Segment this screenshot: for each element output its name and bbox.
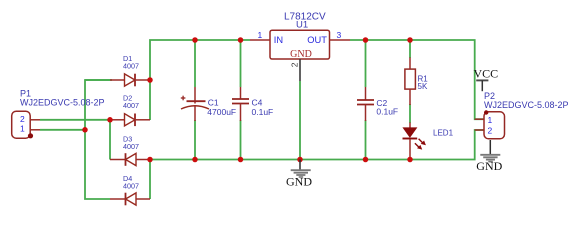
svg-text:OUT: OUT [307, 35, 327, 45]
svg-text:VCC: VCC [474, 67, 499, 81]
regulator U1 [250, 12, 350, 82]
svg-text:2: 2 [290, 62, 300, 67]
wire top rail OUT to P2 pin1 [350, 40, 484, 119]
svg-text:GND: GND [290, 49, 312, 60]
svg-text:0.1uF: 0.1uF [252, 107, 274, 117]
svg-text:4007: 4007 [123, 181, 139, 190]
ground symbol under P2 [476, 140, 502, 173]
node top rail R1 [407, 37, 413, 43]
wire C1 column [194, 40, 196, 87]
resistor R1 [405, 58, 428, 106]
wire vertical x110 D2 anode to D3 cathode [109, 120, 111, 160]
node D1 cathode junction [147, 77, 153, 83]
wire P1 pin1 to vertical [40, 129, 85, 131]
power flag VCC [474, 67, 499, 92]
svg-text:2: 2 [20, 114, 25, 124]
capacitor C2 [357, 87, 398, 121]
node U1 pin1 junction [239, 39, 241, 41]
diode D3 [110, 135, 150, 166]
node top rail C1 [192, 37, 198, 43]
wire R1 LED column [409, 40, 411, 58]
wire positive vertical x150 top rail to D2 cathode [150, 40, 250, 120]
node D3 anode junction [147, 157, 153, 163]
wire vertical x85 D1 anode to D4 cathode [85, 80, 110, 199]
diode D2 [110, 94, 150, 127]
node P1 pin1 junction [82, 127, 88, 133]
wire D4 anode to D3 anode junction [149, 160, 151, 200]
node top rail C2 [363, 37, 369, 43]
diode D1 [110, 54, 150, 86]
capacitor C4 [232, 87, 273, 121]
svg-text:IN: IN [274, 35, 283, 45]
node bottom rail C1 [192, 157, 198, 163]
svg-text:3: 3 [337, 30, 342, 40]
wire C4 column [240, 40, 242, 87]
svg-text:2: 2 [488, 126, 493, 136]
svg-text:4007: 4007 [123, 142, 139, 151]
svg-text:WJ2EDGVC-5.08-2P: WJ2EDGVC-5.08-2P [484, 100, 569, 110]
node top rail C4 [238, 37, 244, 43]
node bottom rail C2 [363, 157, 369, 163]
svg-text:GND: GND [286, 174, 312, 188]
svg-text:LED1: LED1 [433, 129, 454, 138]
svg-text:U1: U1 [296, 20, 308, 31]
svg-text:1: 1 [488, 115, 493, 125]
svg-text:1: 1 [20, 123, 25, 133]
wire D1 anode lead-in [85, 79, 112, 81]
ground symbol under U1 [286, 160, 312, 189]
svg-text:1: 1 [258, 30, 263, 40]
node bottom rail LED [407, 157, 413, 163]
capacitor C1 [181, 87, 236, 121]
wire C2 column [365, 40, 367, 87]
svg-text:4007: 4007 [123, 101, 139, 110]
svg-text:WJ2EDGVC-5.08-2P: WJ2EDGVC-5.08-2P [20, 98, 105, 108]
node bottom rail C4 [238, 157, 244, 163]
svg-text:4700uF: 4700uF [207, 107, 236, 117]
node bottom rail U1 gnd [297, 157, 303, 163]
wire P1 pin2 to D2 anode [40, 119, 110, 121]
connector P2 [475, 91, 569, 139]
node P1 pin2 / D2 anode junction [107, 117, 113, 123]
svg-text:GND: GND [476, 159, 502, 173]
wire U1 GND pin to bottom rail [299, 81, 301, 160]
diode D4 [110, 174, 150, 205]
svg-text:0.1uF: 0.1uF [376, 106, 398, 116]
wire bottom rail [150, 130, 484, 160]
connector P1 [12, 89, 105, 139]
svg-text:4007: 4007 [123, 61, 139, 70]
svg-text:5K: 5K [418, 82, 428, 91]
LED LED1 [403, 123, 454, 160]
